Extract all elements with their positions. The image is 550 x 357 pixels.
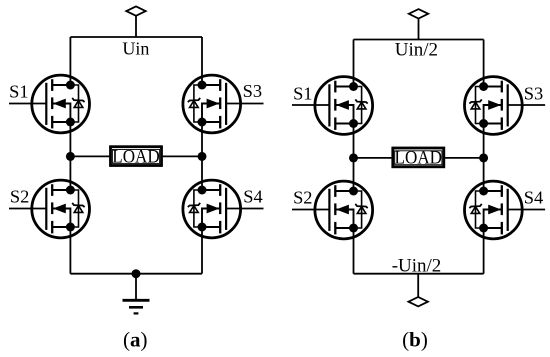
svg-text:LOAD: LOAD	[395, 148, 443, 169]
svg-text:(a): (a)	[123, 328, 148, 352]
transistor S2 (b)	[315, 181, 373, 239]
wire right rail middle (b)	[483, 124, 485, 192]
junction right output node (a)	[198, 152, 207, 161]
load LOAD (a)	[111, 146, 162, 167]
svg-text:Uin/2: Uin/2	[395, 40, 438, 61]
svg-text:S2: S2	[293, 187, 312, 207]
junction left output node (a)	[66, 152, 75, 161]
power terminal Uin supply (a)	[126, 6, 145, 15]
wire S2 gate lead	[9, 208, 46, 210]
wire right rail middle (a)	[201, 122, 203, 190]
wire left rail lower (b)	[353, 228, 355, 274]
svg-text:Uin: Uin	[122, 38, 149, 58]
load LOAD (b)	[393, 148, 444, 169]
power terminal -Uin/2 supply (b)	[409, 297, 428, 306]
wire S1 gate lead (b)	[292, 104, 329, 106]
wire S4 gate lead	[226, 208, 263, 210]
wire S3 gate lead (b)	[508, 104, 545, 106]
svg-text:S4: S4	[524, 187, 543, 207]
svg-text:S1: S1	[9, 81, 28, 101]
svg-text:(b): (b)	[402, 328, 428, 352]
wire right rail upper (b)	[483, 40, 485, 87]
svg-text:S4: S4	[243, 186, 262, 206]
wire bottom rail (a)	[70, 273, 202, 275]
junction ground node (a)	[132, 269, 141, 278]
wire top rail (b)	[354, 39, 484, 41]
wire right rail lower (a)	[201, 227, 203, 274]
transistor S3 (a)	[183, 75, 241, 133]
wire load right lead (a)	[162, 155, 202, 157]
wire left rail middle (a)	[69, 122, 71, 190]
wire negative supply stem (b)	[417, 274, 419, 297]
wire left rail upper (a)	[69, 37, 71, 85]
wire load right lead (b)	[444, 157, 484, 159]
wire left rail lower (a)	[69, 227, 71, 274]
svg-text:-Uin/2: -Uin/2	[392, 256, 442, 277]
wire supply stem (b)	[418, 19, 420, 40]
junction right output node (b)	[479, 153, 488, 162]
wire S4 gate lead (b)	[508, 209, 545, 211]
wire S2 gate lead (b)	[292, 209, 329, 211]
transistor S1 (a)	[32, 75, 90, 133]
svg-text:S3: S3	[524, 84, 543, 104]
svg-text:S3: S3	[243, 81, 262, 101]
wire bottom rail (b)	[354, 273, 484, 275]
ground	[123, 274, 150, 314]
transistor S2 (a)	[32, 180, 90, 238]
transistor S3 (b)	[465, 77, 523, 135]
wire load left lead (a)	[70, 155, 110, 157]
svg-text:S1: S1	[293, 83, 312, 103]
wire load left lead (b)	[354, 157, 393, 159]
wire top rail (a)	[70, 36, 202, 38]
wire left rail middle (b)	[353, 124, 355, 192]
wire supply stem (a)	[135, 16, 137, 37]
transistor S4 (a)	[183, 180, 241, 238]
wire S1 gate lead	[9, 103, 46, 105]
wire right rail upper (a)	[201, 37, 203, 85]
transistor S1 (b)	[315, 77, 373, 135]
wire S3 gate lead	[226, 103, 263, 105]
wire right rail lower (b)	[483, 228, 485, 274]
wire left rail upper (b)	[353, 40, 355, 87]
power terminal Uin/2 supply (b)	[409, 9, 428, 18]
svg-text:S2: S2	[10, 186, 29, 206]
transistor S4 (b)	[465, 181, 523, 239]
junction left output node (b)	[349, 153, 358, 162]
svg-text:LOAD: LOAD	[112, 146, 160, 167]
